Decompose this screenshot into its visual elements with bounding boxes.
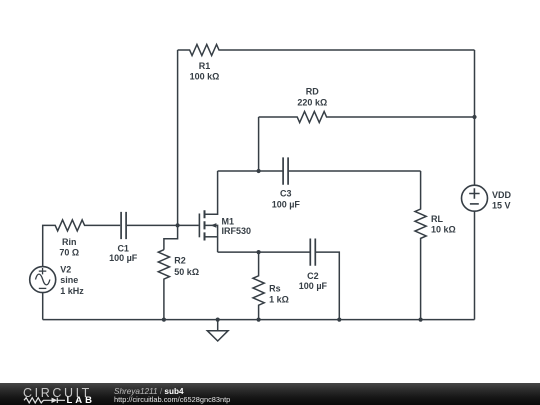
capacitor C3: [283, 157, 288, 184]
node ground junction: [216, 318, 220, 322]
svg-text:1 kΩ: 1 kΩ: [269, 294, 289, 304]
svg-text:Rs: Rs: [269, 284, 281, 294]
wire gate lead: [178, 224, 199, 226]
svg-text:R2: R2: [174, 256, 186, 266]
wire drain rail left of C3: [218, 170, 283, 172]
wire C2 right and down to bottom rail: [316, 252, 339, 320]
svg-text:IRF530: IRF530: [222, 226, 252, 236]
ground triangle: [207, 331, 228, 341]
node Rs bottom: [257, 318, 261, 322]
svg-text:70 Ω: 70 Ω: [59, 247, 79, 257]
wire left vertical from R1 to gate node: [177, 50, 179, 225]
transistor M1 drain lead and wire up to C3 rail: [205, 171, 218, 214]
wire C1 right to gate node: [127, 224, 178, 226]
svg-text:C2: C2: [307, 271, 319, 281]
wire right vertical above VDD: [474, 50, 476, 185]
node RD right: [472, 115, 476, 119]
resistor RD: [259, 112, 475, 123]
resistor RL: [415, 171, 426, 320]
node Rs top: [257, 250, 261, 254]
svg-text:sine: sine: [60, 275, 78, 285]
svg-text:10 kΩ: 10 kΩ: [431, 225, 456, 235]
logo CIRCUIT text: [23, 386, 92, 400]
resistor R2: [158, 250, 169, 320]
node gate junction: [176, 223, 180, 227]
transistor M1 body lead and source vertical: [205, 225, 218, 252]
wire right vertical below VDD: [474, 211, 476, 319]
svg-text:50 kΩ: 50 kΩ: [174, 267, 199, 277]
svg-text:220 kΩ: 220 kΩ: [297, 97, 327, 107]
footer author line: [114, 387, 184, 396]
footer bar: [0, 383, 540, 405]
node C2 bottom: [337, 318, 341, 322]
wire source rail to C2: [218, 251, 310, 253]
svg-text:1 kHz: 1 kHz: [60, 286, 84, 296]
wire C3 right to RL top: [289, 170, 421, 172]
capacitor C2: [310, 239, 315, 266]
svg-text:15 V: 15 V: [492, 200, 511, 210]
VDD minus sign: [470, 203, 479, 205]
source VDD circle: [462, 185, 488, 211]
svg-text:100 µF: 100 µF: [109, 253, 138, 263]
capacitor C1: [121, 212, 126, 239]
node RL bottom: [419, 318, 423, 322]
ground stub: [217, 320, 219, 331]
transistor M1 body arrow: [211, 223, 217, 228]
VDD plus sign: [469, 188, 479, 198]
V2 minus sign: [39, 287, 47, 289]
svg-text:100 µF: 100 µF: [272, 199, 301, 209]
svg-text:100 kΩ: 100 kΩ: [190, 72, 220, 82]
node R2 bottom: [162, 318, 166, 322]
V2 sine wave: [36, 274, 50, 285]
wire R2 branch jog: [164, 225, 178, 249]
logo LAB text: [67, 395, 96, 405]
svg-text:Rin: Rin: [62, 237, 77, 247]
footer url line: [114, 395, 230, 404]
wire V2 top to Rin to C1: [43, 220, 121, 267]
svg-text:VDD: VDD: [492, 190, 512, 200]
svg-text:V2: V2: [60, 265, 71, 275]
wire V2 bottom: [42, 293, 44, 320]
svg-text:RD: RD: [306, 87, 319, 97]
wire RD branch vertical: [258, 117, 260, 171]
svg-text:C3: C3: [280, 189, 292, 199]
svg-text:100 µF: 100 µF: [299, 281, 328, 291]
logo zigzag diode: [0, 383, 110, 405]
svg-text:C1: C1: [117, 243, 129, 253]
node RD branch: [257, 169, 261, 173]
svg-text:R1: R1: [199, 61, 211, 71]
transistor M1 gate bar: [198, 214, 200, 238]
V2 plus sign: [39, 268, 47, 274]
wire top rail with resistor R1: [178, 45, 475, 56]
svg-text:RL: RL: [431, 214, 443, 224]
transistor M1 source lead: [205, 236, 218, 238]
svg-text:M1: M1: [222, 216, 235, 226]
transistor M1 channel dashes: [204, 210, 206, 240]
source V2 circle: [30, 267, 56, 293]
resistor Rs: [253, 252, 264, 320]
wire bottom rail: [43, 319, 475, 321]
